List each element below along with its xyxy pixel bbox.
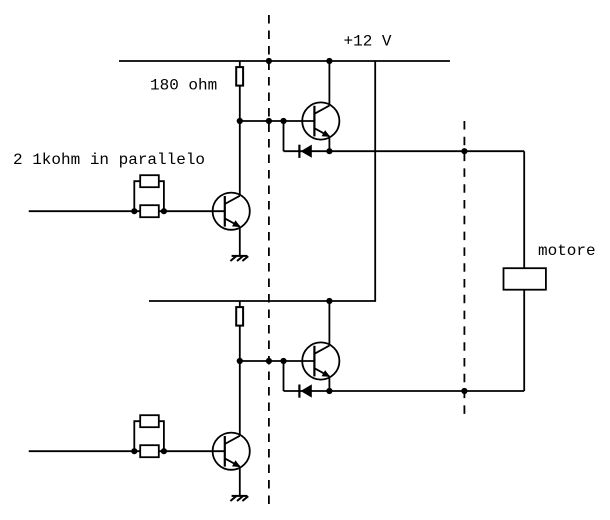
node row1 base (280, 118, 286, 124)
wire: Q2 collector to rail (328, 61, 330, 106)
motor M1 (504, 151, 546, 391)
resistor R2 (bottom) (236, 301, 243, 326)
dashed separator line left (268, 15, 270, 505)
node dash right bottom (461, 388, 467, 394)
node parallel bottom right (161, 448, 167, 454)
transistor Q2 (top right NPN) (302, 102, 339, 139)
svg-text:motore: motore (538, 242, 596, 260)
node dash right top (461, 148, 467, 154)
transistor Q4 (bottom right NPN) (302, 342, 339, 379)
node parallel top left (131, 208, 137, 214)
ground (bottom) (230, 496, 248, 501)
resistor R1 180 ohm (top) (236, 61, 243, 86)
node parallel top right (161, 208, 167, 214)
transistor Q3 (left bottom NPN) (213, 433, 250, 470)
diode D2 (bottom) (299, 384, 311, 397)
node lower rail/Q4 collector (326, 298, 332, 304)
wire: input 1 (29, 210, 225, 212)
dashed separator line right (463, 121, 465, 414)
svg-text:180 ohm: 180 ohm (150, 76, 217, 94)
node row1 left (237, 118, 243, 124)
node row2 dash (266, 358, 272, 364)
wire: R2 bottom to Q3 collector (239, 326, 241, 436)
node row2 base (280, 358, 286, 364)
node row2 left (237, 358, 243, 364)
wire: R1 bottom to Q1 collector (239, 86, 241, 196)
diode D1 (top, cathode bar left) (299, 145, 311, 158)
node rail/dash (266, 58, 272, 64)
wire: Q2 emitter down (328, 136, 330, 151)
resistors 2x1k parallel (top) (134, 175, 164, 217)
wire: Q3 emitter to ground (239, 467, 241, 496)
wire: diode line bottom (y=391) (284, 390, 525, 392)
wire: node row top (y=121) (240, 120, 284, 122)
+12V rail (119, 60, 450, 62)
wire: base to diode anode (vertical) (283, 121, 285, 151)
wire: base to diode anode (vertical, bottom) (283, 361, 285, 391)
svg-text:+12 V: +12 V (344, 32, 392, 50)
wire: Q4 collector to lower rail (328, 301, 330, 346)
node diode/emitter bottom (326, 388, 332, 394)
node diode/emitter top (326, 148, 332, 154)
wire: input 2 (29, 450, 225, 452)
resistors 2x1k parallel (bottom) (134, 415, 164, 457)
svg-text:2 1kohm in parallelo: 2 1kohm in parallelo (13, 151, 205, 169)
wire: node row bottom (y=361) (240, 360, 284, 362)
wire: Q4 base lead (284, 360, 315, 362)
transistor Q1 (left top NPN) (213, 193, 250, 230)
wire: Q2 base lead (284, 120, 315, 122)
node parallel bottom left (131, 448, 137, 454)
wire: lower rail (149, 61, 375, 301)
node rail/Q2 collector (326, 58, 332, 64)
wire: Q1 emitter to ground (239, 227, 241, 256)
node row1 dash (266, 118, 272, 124)
wire: Q4 emitter down (328, 376, 330, 391)
wire: diode line top (y=151) (284, 150, 525, 152)
ground (top) (230, 256, 248, 261)
